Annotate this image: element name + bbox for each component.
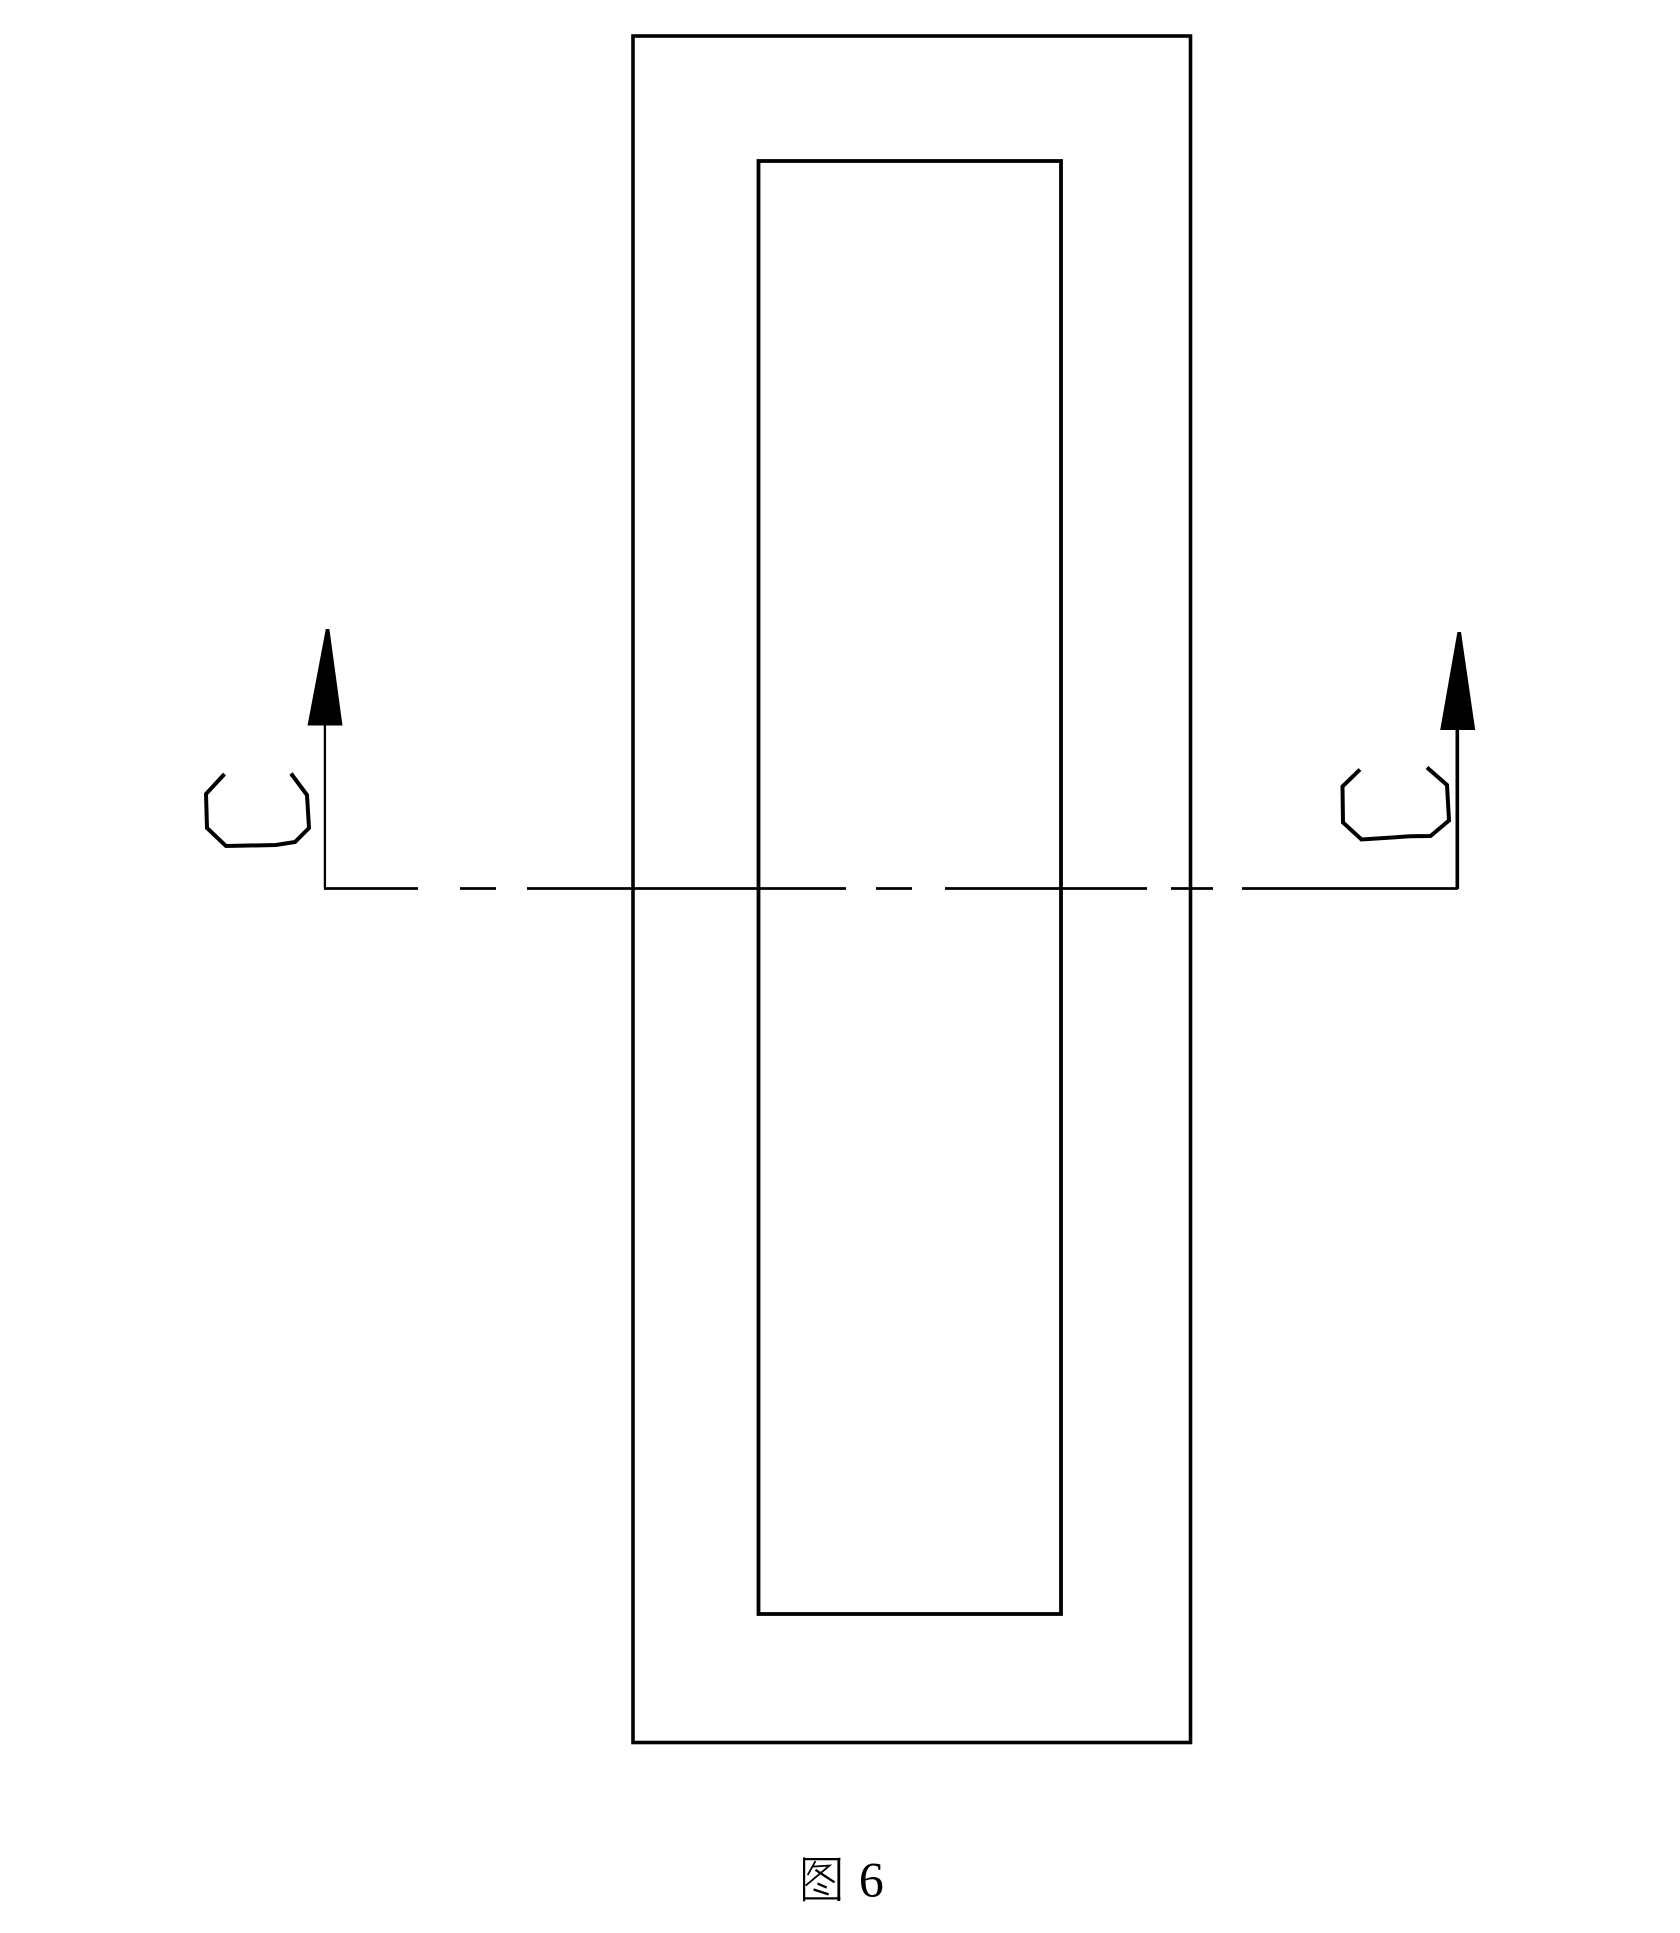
section line long segment 5 (945, 887, 1147, 890)
caption glyph 图 : lower dot 2 (814, 1890, 829, 1895)
left section arrowhead (308, 629, 343, 726)
caption glyph 图 : inner horizontal-falling stroke (806, 1866, 830, 1886)
caption glyph 图 : box top bar (803, 1858, 840, 1860)
right section arrowhead (1440, 632, 1475, 730)
caption glyph 图 : inner pie stroke 1 (808, 1861, 816, 1875)
section line long segment 3 (527, 887, 846, 890)
section line short dash 6 (1171, 887, 1213, 890)
section line short dash 2 (460, 887, 496, 890)
section line long segment 7 (1242, 887, 1458, 890)
left section mark C (open octagon) (206, 774, 309, 847)
caption glyph 图 : lower dot 1 (818, 1884, 827, 1888)
section line short dash 4 (876, 887, 912, 890)
right section arrow shaft (1456, 728, 1460, 889)
inner rectangle (slot opening) (759, 161, 1062, 1614)
caption glyph 图 : box right vertical (837, 1858, 840, 1901)
caption glyph 图 : inner press stroke (816, 1870, 835, 1882)
right section mark C (open octagon) (1343, 768, 1450, 840)
outer rectangle (component body, plan view) (633, 36, 1191, 1743)
section line C-C (dash-dot chain), segment 1 (324, 887, 418, 890)
caption glyph 图 : box bottom bar (803, 1897, 840, 1899)
caption glyph 图 : box left vertical (803, 1857, 805, 1901)
caption figure number 6 (861, 1864, 882, 1898)
left section arrow shaft (324, 724, 326, 889)
